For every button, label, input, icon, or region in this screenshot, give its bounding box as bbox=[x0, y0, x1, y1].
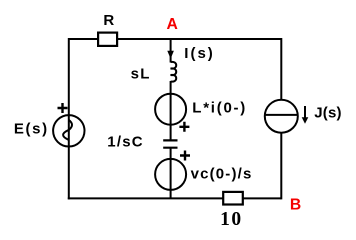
wire top (node A rail) bbox=[69, 38, 281, 40]
wire middle branch mid segment (coil to capacitor) bbox=[170, 81, 172, 140]
current arrow I(s) bbox=[167, 51, 174, 59]
current source J(s) (circle, white fill) bbox=[265, 100, 298, 133]
svg-text:E(s): E(s) bbox=[14, 120, 47, 137]
svg-text:L*i(0-): L*i(0-) bbox=[192, 99, 245, 116]
inductor sL (coil) bbox=[171, 62, 177, 82]
svg-text:1/sC: 1/sC bbox=[107, 133, 142, 150]
chord line of J(s) source bbox=[265, 114, 298, 116]
voltage source E(s) (circle) bbox=[53, 115, 84, 146]
wire middle branch upper segment bbox=[170, 39, 172, 63]
wire left branch bbox=[68, 38, 70, 199]
wire right branch bbox=[280, 38, 282, 199]
wire middle branch lower segment (capacitor to bottom rail) bbox=[170, 148, 172, 199]
current direction arrow of J(s) bbox=[304, 106, 306, 118]
polarity plus of E(s) bbox=[58, 103, 68, 113]
voltage source vc(0-)/s (circle) bbox=[155, 159, 186, 190]
resistor 10 (box) bbox=[223, 192, 243, 205]
svg-text:B: B bbox=[290, 196, 301, 213]
resistor R (box) bbox=[98, 33, 117, 46]
svg-text:10: 10 bbox=[220, 209, 241, 230]
current source L*i(0-) (circle) bbox=[155, 94, 186, 125]
polarity plus of L*i(0-) bbox=[179, 122, 189, 132]
capacitor 1/sC (plates) bbox=[163, 140, 177, 147]
sine squiggle of E(s) bbox=[63, 120, 72, 140]
svg-text:J(s): J(s) bbox=[314, 105, 341, 122]
polarity plus of vc(0-)/s bbox=[180, 151, 190, 161]
svg-text:sL: sL bbox=[131, 66, 150, 83]
svg-text:I(s): I(s) bbox=[184, 45, 213, 62]
svg-text:R: R bbox=[103, 12, 114, 29]
wire bottom (node B rail) bbox=[68, 197, 281, 199]
svg-text:vc(0-)/s: vc(0-)/s bbox=[191, 166, 252, 183]
svg-text:A: A bbox=[167, 16, 178, 33]
